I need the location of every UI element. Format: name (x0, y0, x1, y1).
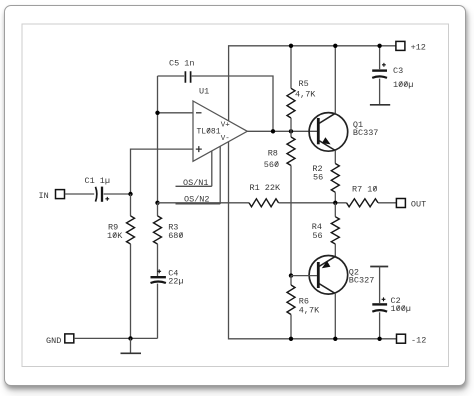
svg-text:C5 1n: C5 1n (169, 59, 195, 69)
pin V- label (221, 135, 230, 143)
ground symbol main (121, 338, 142, 353)
resistor R8 (287, 131, 295, 275)
capacitor C1 (96, 187, 110, 202)
value label C2 100µ (391, 296, 411, 314)
resistor R3 (154, 203, 162, 276)
node Q2 base junction (289, 273, 293, 277)
ground symbol C3 (370, 104, 390, 106)
svg-text:560: 560 (264, 160, 279, 170)
pin V+ label (221, 122, 231, 130)
value label R9 10K (107, 223, 123, 241)
svg-text:R5: R5 (299, 79, 309, 89)
wire op-amp output to Q1 base (247, 130, 317, 132)
capacitor C5 (185, 71, 190, 82)
port GND (46, 334, 74, 346)
svg-text:C1 1µ: C1 1µ (85, 176, 111, 186)
svg-text:OUT: OUT (411, 199, 426, 209)
port +12 (396, 41, 426, 52)
wire Q2 collector (334, 293, 336, 339)
value label C1 1µ (85, 176, 111, 186)
port IN (39, 190, 65, 201)
svg-text:4,7K: 4,7K (295, 90, 316, 100)
svg-text:V-: V- (221, 135, 230, 143)
value label C3 100µ (393, 66, 413, 90)
svg-text:22µ: 22µ (168, 277, 183, 287)
svg-text:100µ: 100µ (393, 80, 413, 90)
value label R3 680 (168, 223, 183, 241)
transistor Q1 (309, 113, 348, 152)
wire op-amp inverting input (158, 112, 194, 114)
value label R8 560 (264, 149, 279, 170)
resistor R2 (331, 150, 339, 202)
ground symbol C2 (370, 266, 388, 268)
value label R2 56 (312, 164, 323, 183)
svg-text:R1 22K: R1 22K (250, 183, 282, 193)
wire op-amp non-inverting input (131, 149, 194, 194)
node output C5 junction (271, 129, 275, 133)
node inverting input junction (155, 111, 159, 115)
svg-text:56: 56 (312, 231, 322, 241)
svg-text:OS/N1: OS/N1 (183, 178, 209, 188)
value label R4 56 (312, 222, 323, 241)
inner frame (22, 24, 449, 367)
reference label Q1 BC337 (353, 120, 379, 138)
svg-text:BC327: BC327 (349, 275, 375, 285)
node Q2 collector rail junction (333, 337, 337, 341)
value label R5 4,7K (295, 79, 316, 100)
node +12 rail wire (229, 46, 396, 121)
svg-text:680: 680 (168, 231, 183, 241)
value label C5 1n (169, 59, 195, 69)
wire ground line (74, 337, 158, 339)
node R6 rail junction (289, 337, 293, 341)
node C2 rail junction (377, 337, 381, 341)
svg-text:R7 10: R7 10 (352, 184, 378, 194)
svg-text:GND: GND (46, 336, 61, 346)
wire C5 feedback loop (158, 76, 274, 131)
node C3 rail junction (377, 44, 381, 48)
transistor Q2 (309, 255, 348, 294)
value label TL081 (197, 127, 221, 136)
capacitor C4 (151, 269, 166, 338)
node -12 rail wire (229, 142, 397, 339)
svg-text:TL081: TL081 (197, 127, 221, 136)
node Q1 collector rail junction (333, 44, 337, 48)
wire inverting node vertical (157, 76, 159, 203)
svg-text:4,7K: 4,7K (299, 306, 320, 316)
resistor R4 (331, 203, 339, 257)
resistor R5 (287, 46, 295, 132)
capacitor C2 (372, 267, 387, 339)
svg-text:C3: C3 (393, 66, 403, 76)
node A input junction (128, 192, 132, 196)
svg-text:56: 56 (313, 172, 323, 182)
svg-text:10K: 10K (107, 231, 123, 241)
node Q1 base bias junction (289, 129, 293, 133)
node R9 ground junction (128, 336, 132, 340)
capacitor C3 (372, 46, 387, 105)
value label R7 10 (352, 184, 378, 194)
wire Q2 base (291, 275, 317, 277)
node feedback junction (155, 201, 159, 205)
port -12 (397, 334, 427, 345)
svg-text:-12: -12 (411, 335, 426, 345)
resistor R7 (347, 199, 379, 207)
svg-text:U1: U1 (199, 87, 209, 97)
value label R1 22K (250, 183, 282, 193)
resistor R1 (249, 199, 279, 207)
svg-text:BC337: BC337 (353, 128, 379, 138)
node emitter output junction (333, 201, 337, 205)
wire Q1 collector (334, 46, 336, 114)
wire signal line (158, 202, 397, 204)
wire IN to C1 (65, 193, 131, 195)
port OUT (396, 199, 426, 210)
op-amp U1 (193, 101, 247, 161)
svg-text:IN: IN (39, 191, 49, 201)
node R5 rail junction (289, 44, 293, 48)
value label C4 22µ (168, 268, 183, 286)
svg-text:100µ: 100µ (391, 304, 411, 314)
svg-text:V+: V+ (221, 122, 231, 130)
svg-text:R8: R8 (268, 149, 278, 159)
reference label U1 (199, 87, 209, 97)
pin OS/N2 (176, 146, 221, 204)
reference label Q2 BC327 (349, 267, 375, 285)
resistor R6 (287, 276, 295, 339)
resistor R9 (127, 194, 135, 338)
svg-text:+12: +12 (411, 43, 426, 53)
pin OS/N1 (176, 151, 212, 188)
value label R6 4,7K (299, 296, 320, 315)
slashed zeros decoration (113, 81, 407, 310)
